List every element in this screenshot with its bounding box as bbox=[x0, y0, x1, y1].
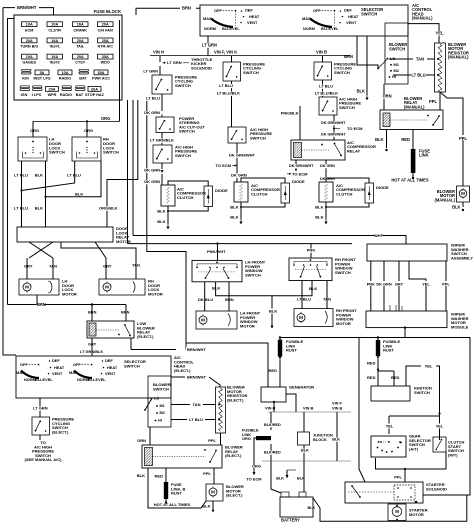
svg-text:BLOWERSWITCH: BLOWERSWITCH bbox=[389, 42, 407, 51]
svg-text:DIODE: DIODE bbox=[215, 188, 228, 193]
svg-text:INJ#2: INJ#2 bbox=[50, 61, 60, 65]
svg-text:BLK: BLK bbox=[137, 473, 145, 478]
svg-text:LT BLU: LT BLU bbox=[67, 173, 81, 178]
svg-text:BAT: BAT bbox=[76, 93, 84, 97]
svg-text:DK GRN: DK GRN bbox=[144, 168, 160, 173]
svg-text:VENT: VENT bbox=[105, 371, 116, 376]
svg-text:CTSY: CTSY bbox=[75, 61, 86, 65]
svg-text:BRN/WHT: BRN/WHT bbox=[187, 375, 206, 380]
svg-text:TAN: TAN bbox=[416, 56, 424, 61]
svg-text:VIN B: VIN B bbox=[303, 406, 314, 411]
svg-text:M1: M1 bbox=[160, 404, 165, 408]
svg-text:BRN: BRN bbox=[344, 54, 353, 59]
svg-text:BLK: BLK bbox=[308, 506, 316, 510]
svg-text:25A: 25A bbox=[102, 39, 109, 43]
svg-text:ORG: ORG bbox=[252, 464, 261, 469]
svg-text:INJ#1: INJ#1 bbox=[50, 45, 60, 49]
svg-text:OFF: OFF bbox=[73, 362, 81, 367]
svg-text:ORG/BLK: ORG/BLK bbox=[99, 206, 118, 211]
svg-text:WDO: WDO bbox=[101, 61, 110, 65]
svg-text:FUSE BLOCK: FUSE BLOCK bbox=[94, 9, 121, 14]
svg-text:GENERATOR: GENERATOR bbox=[289, 385, 314, 390]
svg-text:VENT: VENT bbox=[52, 371, 63, 376]
svg-text:SOLENOID: SOLENOID bbox=[191, 65, 212, 70]
svg-text:HEAT: HEAT bbox=[249, 14, 260, 19]
svg-text:PPL: PPL bbox=[203, 471, 211, 476]
svg-text:M: M bbox=[25, 285, 29, 290]
svg-text:BLK: BLK bbox=[297, 477, 305, 481]
svg-text:RADIO: RADIO bbox=[60, 93, 72, 97]
svg-text:BLK: BLK bbox=[332, 438, 340, 442]
svg-text:RADIO: RADIO bbox=[59, 76, 71, 80]
svg-text:HOT AT ALL TIMES: HOT AT ALL TIMES bbox=[391, 178, 429, 183]
svg-text:VIN H: VIN H bbox=[153, 50, 164, 55]
svg-text:PNK: PNK bbox=[307, 248, 316, 253]
svg-text:LT BLU/BLK: LT BLU/BLK bbox=[217, 91, 240, 96]
svg-text:RED: RED bbox=[367, 375, 376, 380]
svg-text:NORM: NORM bbox=[303, 26, 315, 31]
svg-text:35A: 35A bbox=[102, 55, 109, 59]
svg-text:BLK: BLK bbox=[309, 286, 317, 291]
svg-text:TAN: TAN bbox=[132, 263, 140, 268]
svg-text:16A: 16A bbox=[77, 23, 84, 27]
svg-text:CRANK: CRANK bbox=[73, 28, 87, 32]
svg-text:DK GRN/WHT: DK GRN/WHT bbox=[289, 164, 314, 168]
svg-text:TAIL: TAIL bbox=[76, 45, 85, 49]
svg-text:DK GRN/WHT: DK GRN/WHT bbox=[321, 133, 346, 137]
svg-text:YEL: YEL bbox=[386, 424, 394, 429]
svg-text:DEF: DEF bbox=[344, 8, 352, 13]
svg-text:35A: 35A bbox=[98, 71, 105, 75]
svg-text:M: M bbox=[461, 191, 465, 196]
svg-text:10A: 10A bbox=[62, 71, 69, 75]
svg-text:LT GRN: LT GRN bbox=[202, 43, 217, 48]
svg-text:BLK: BLK bbox=[315, 205, 323, 210]
svg-text:BRN: BRN bbox=[121, 310, 130, 315]
svg-text:20A: 20A bbox=[77, 39, 84, 43]
svg-text:DEF: DEF bbox=[245, 8, 253, 13]
svg-text:20A: 20A bbox=[102, 23, 109, 27]
svg-text:GRY: GRY bbox=[103, 264, 112, 269]
svg-text:BLK: BLK bbox=[202, 504, 210, 509]
svg-text:VIN B: VIN B bbox=[332, 406, 343, 411]
svg-text:BLK: BLK bbox=[452, 205, 460, 210]
svg-text:RED: RED bbox=[401, 137, 410, 142]
svg-text:GAGES: GAGES bbox=[22, 61, 36, 65]
svg-text:BRN: BRN bbox=[88, 310, 97, 315]
svg-text:PNK/BLK: PNK/BLK bbox=[281, 111, 299, 116]
svg-text:PPL: PPL bbox=[429, 99, 437, 104]
svg-text:VENT: VENT bbox=[346, 20, 357, 25]
svg-text:LO: LO bbox=[154, 397, 159, 401]
svg-text:5A: 5A bbox=[40, 71, 45, 75]
svg-text:PPL: PPL bbox=[394, 475, 402, 480]
svg-text:LT GRN/BLK: LT GRN/BLK bbox=[80, 349, 103, 354]
svg-text:20A: 20A bbox=[49, 87, 56, 91]
svg-text:LT BLU: LT BLU bbox=[319, 84, 333, 89]
svg-text:BLK: BLK bbox=[212, 286, 220, 291]
svg-text:DK GRN: DK GRN bbox=[144, 179, 160, 184]
svg-text:YEL: YEL bbox=[425, 363, 433, 368]
svg-text:VIN F, VIN K: VIN F, VIN K bbox=[214, 50, 237, 55]
svg-text:YEL: YEL bbox=[436, 424, 444, 429]
svg-text:GRY: GRY bbox=[24, 264, 33, 269]
svg-text:10A: 10A bbox=[51, 23, 58, 27]
svg-text:ORG: ORG bbox=[84, 128, 93, 133]
svg-text:MAX: MAX bbox=[302, 16, 311, 21]
svg-text:VENT: VENT bbox=[247, 20, 258, 25]
svg-text:STARTERSOLENOID: STARTERSOLENOID bbox=[426, 482, 447, 491]
svg-text:DK GRN: DK GRN bbox=[231, 173, 247, 178]
svg-text:ORG: ORG bbox=[101, 116, 110, 121]
svg-text:DK GRN: DK GRN bbox=[376, 281, 391, 286]
svg-text:BLK: BLK bbox=[230, 215, 238, 220]
svg-text:STOP HAZ: STOP HAZ bbox=[85, 93, 105, 97]
svg-text:BAT: BAT bbox=[79, 76, 87, 80]
svg-text:MAX: MAX bbox=[203, 16, 212, 21]
svg-text:BLK: BLK bbox=[315, 215, 323, 220]
svg-text:LT GRN: LT GRN bbox=[143, 69, 158, 74]
svg-text:OFF: OFF bbox=[20, 362, 28, 367]
svg-text:C/H FAN: C/H FAN bbox=[98, 28, 113, 32]
svg-text:HEAT: HEAT bbox=[348, 14, 359, 19]
svg-text:LT BLU: LT BLU bbox=[219, 83, 233, 88]
svg-text:TO ECM: TO ECM bbox=[292, 172, 308, 177]
svg-text:DK GRN: DK GRN bbox=[144, 110, 160, 115]
svg-text:YEL: YEL bbox=[436, 31, 444, 36]
svg-text:PNK: PNK bbox=[367, 281, 375, 286]
svg-text:BRN: BRN bbox=[182, 6, 191, 11]
svg-text:WHT: WHT bbox=[374, 233, 384, 238]
svg-text:BLK: BLK bbox=[157, 219, 165, 224]
svg-text:M1: M1 bbox=[394, 62, 400, 67]
svg-text:DK GRN/WHT: DK GRN/WHT bbox=[321, 121, 346, 125]
svg-text:BRN/WHT: BRN/WHT bbox=[187, 347, 206, 352]
svg-text:PWR ACC: PWR ACC bbox=[92, 76, 110, 80]
svg-text:20A: 20A bbox=[77, 55, 84, 59]
svg-text:BLK: BLK bbox=[269, 309, 277, 314]
svg-text:M: M bbox=[201, 318, 205, 323]
svg-text:HI: HI bbox=[158, 419, 162, 423]
svg-text:BLOWERSWITCH: BLOWERSWITCH bbox=[153, 382, 171, 391]
svg-text:20A: 20A bbox=[26, 39, 33, 43]
svg-text:BRN: BRN bbox=[225, 297, 234, 302]
svg-text:VIN B: VIN B bbox=[316, 50, 327, 55]
svg-text:DK GRN: DK GRN bbox=[320, 164, 335, 168]
svg-text:WPR: WPR bbox=[48, 93, 57, 97]
svg-text:TO ECM: TO ECM bbox=[247, 477, 262, 482]
svg-text:BLOWERMOTORRESISTOR(MANUAL): BLOWERMOTORRESISTOR(MANUAL) bbox=[448, 42, 469, 60]
svg-text:LT BLU: LT BLU bbox=[411, 72, 425, 77]
svg-text:M: M bbox=[299, 315, 303, 320]
svg-text:TO ECM: TO ECM bbox=[347, 126, 363, 131]
svg-text:M2: M2 bbox=[394, 68, 399, 73]
svg-text:LT BLU: LT BLU bbox=[297, 297, 311, 302]
svg-text:RED: RED bbox=[367, 361, 376, 366]
svg-text:LO: LO bbox=[390, 56, 395, 61]
svg-text:LT BLU: LT BLU bbox=[14, 206, 28, 211]
svg-text:RED: RED bbox=[155, 474, 164, 479]
svg-text:20A: 20A bbox=[91, 87, 98, 91]
svg-text:IGN: IGN bbox=[21, 93, 28, 97]
svg-text:PNK/WHT: PNK/WHT bbox=[207, 249, 226, 254]
svg-text:(SEE MANUAL A/C): (SEE MANUAL A/C) bbox=[25, 457, 63, 462]
svg-text:PPL: PPL bbox=[459, 136, 467, 141]
svg-text:DEF: DEF bbox=[105, 358, 113, 363]
svg-text:GRY: GRY bbox=[395, 281, 404, 286]
svg-text:PPL: PPL bbox=[208, 438, 216, 443]
svg-text:LT BLU: LT BLU bbox=[146, 96, 160, 101]
svg-text:TO ECM: TO ECM bbox=[216, 163, 232, 168]
svg-text:CLSTR: CLSTR bbox=[48, 28, 61, 32]
svg-text:ORG: ORG bbox=[30, 128, 39, 133]
svg-text:IGN: IGN bbox=[22, 76, 29, 80]
svg-text:HOT AT ALL TIMES: HOT AT ALL TIMES bbox=[154, 502, 191, 507]
svg-text:BLK: BLK bbox=[357, 88, 365, 93]
svg-text:DIODE: DIODE bbox=[376, 185, 389, 190]
svg-text:FUSELINK: FUSELINK bbox=[419, 149, 430, 158]
svg-text:INST LPS: INST LPS bbox=[34, 76, 51, 80]
svg-text:BLK: BLK bbox=[375, 137, 383, 142]
svg-text:BLK: BLK bbox=[35, 173, 43, 178]
svg-text:HEAT: HEAT bbox=[54, 365, 65, 370]
svg-text:RED: RED bbox=[391, 375, 400, 380]
svg-text:LT GRN/BLK: LT GRN/BLK bbox=[150, 138, 174, 143]
svg-text:16A: 16A bbox=[51, 39, 58, 43]
svg-text:BRN/WHT: BRN/WHT bbox=[17, 5, 37, 10]
svg-text:BLK/RED: BLK/RED bbox=[264, 423, 281, 427]
svg-text:HEAT: HEAT bbox=[107, 365, 118, 370]
svg-text:LT GRN: LT GRN bbox=[33, 406, 48, 411]
svg-text:OFF: OFF bbox=[313, 8, 321, 13]
svg-text:TAN: TAN bbox=[323, 297, 331, 302]
svg-text:ORN: ORN bbox=[137, 438, 146, 443]
svg-text:ECM: ECM bbox=[25, 28, 33, 32]
svg-text:M: M bbox=[395, 509, 399, 514]
svg-text:BLK: BLK bbox=[157, 209, 165, 214]
svg-text:RED: RED bbox=[269, 368, 278, 373]
svg-text:VIN H: VIN H bbox=[265, 406, 276, 411]
svg-text:16A: 16A bbox=[51, 55, 58, 59]
svg-text:TAN: TAN bbox=[193, 402, 201, 407]
svg-text:I LPS: I LPS bbox=[32, 93, 42, 97]
svg-text:LT BLU: LT BLU bbox=[189, 417, 203, 422]
svg-text:HTR-A/C: HTR-A/C bbox=[97, 45, 113, 49]
svg-text:BLK: BLK bbox=[75, 191, 83, 196]
svg-text:BATTERY: BATTERY bbox=[281, 518, 300, 523]
svg-text:DIODE: DIODE bbox=[292, 179, 305, 184]
svg-text:ORN: ORN bbox=[382, 94, 391, 99]
svg-text:BLK: BLK bbox=[230, 205, 238, 210]
svg-text:10A: 10A bbox=[26, 23, 33, 27]
svg-text:BLK: BLK bbox=[301, 449, 309, 453]
svg-text:GRY: GRY bbox=[88, 342, 97, 347]
svg-text:BLK: BLK bbox=[35, 206, 43, 211]
svg-text:M2: M2 bbox=[160, 411, 165, 415]
svg-text:DK GRN/WHT: DK GRN/WHT bbox=[229, 153, 256, 158]
svg-text:BRN: BRN bbox=[37, 302, 46, 307]
svg-text:BLK/RED: BLK/RED bbox=[264, 451, 281, 455]
svg-text:DEF: DEF bbox=[52, 358, 60, 363]
svg-text:TURN B/U: TURN B/U bbox=[20, 45, 38, 49]
svg-text:BLK: BLK bbox=[276, 477, 284, 481]
svg-text:LT BLU: LT BLU bbox=[14, 173, 28, 178]
svg-text:NORM: NORM bbox=[204, 26, 216, 31]
svg-text:OFF: OFF bbox=[214, 8, 222, 13]
svg-text:DK BLU: DK BLU bbox=[198, 297, 213, 302]
svg-text:PPL: PPL bbox=[442, 281, 450, 286]
svg-text:LT BLU/BLK: LT BLU/BLK bbox=[315, 91, 338, 96]
svg-text:IGNITIONSWITCH: IGNITIONSWITCH bbox=[414, 386, 432, 395]
svg-text:10A: 10A bbox=[26, 55, 33, 59]
svg-text:LT GRN: LT GRN bbox=[167, 60, 182, 65]
svg-text:M: M bbox=[211, 490, 215, 495]
svg-text:YEL: YEL bbox=[422, 281, 430, 286]
svg-text:M: M bbox=[105, 285, 109, 290]
